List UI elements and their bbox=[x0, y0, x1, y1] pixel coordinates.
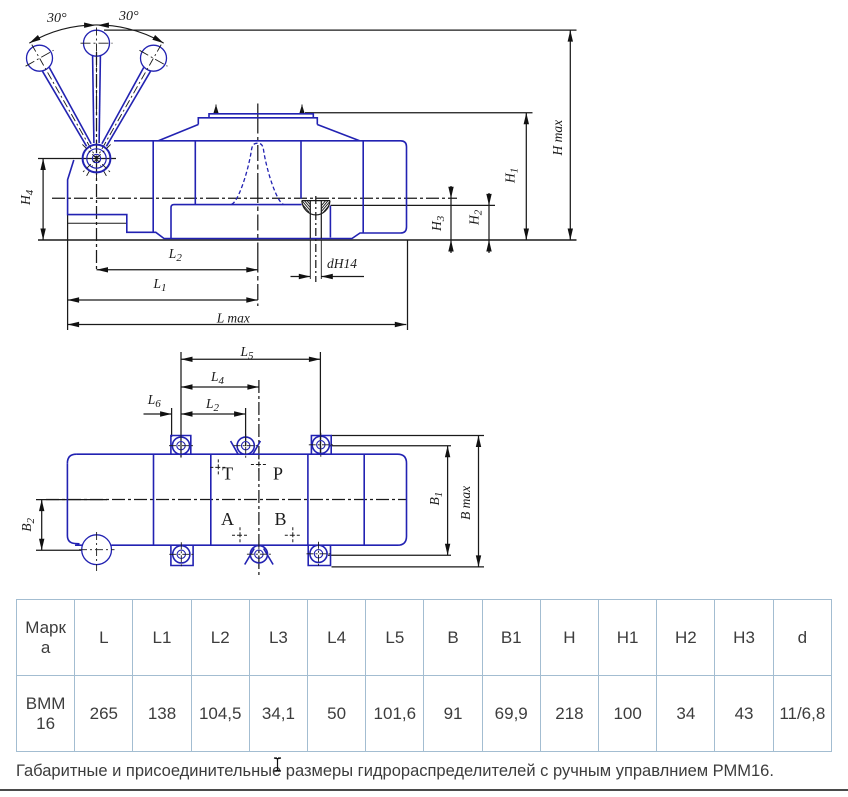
svg-text:H2: H2 bbox=[467, 209, 485, 226]
svg-text:L6: L6 bbox=[147, 392, 162, 410]
svg-text:30°: 30° bbox=[118, 9, 139, 24]
svg-text:dH14: dH14 bbox=[327, 256, 357, 271]
svg-text:L4: L4 bbox=[210, 369, 225, 387]
svg-text:L1: L1 bbox=[153, 276, 167, 294]
svg-text:B max: B max bbox=[458, 486, 473, 520]
svg-text:P: P bbox=[273, 464, 283, 484]
svg-text:L2: L2 bbox=[168, 246, 183, 264]
svg-text:H max: H max bbox=[550, 120, 565, 157]
svg-text:H1: H1 bbox=[503, 168, 521, 184]
svg-text:30°: 30° bbox=[46, 11, 67, 26]
svg-text:A: A bbox=[221, 509, 234, 529]
svg-text:L2: L2 bbox=[205, 396, 220, 414]
svg-text:H3: H3 bbox=[429, 215, 447, 232]
svg-text:T: T bbox=[222, 464, 233, 484]
svg-text:L max: L max bbox=[216, 311, 250, 326]
svg-text:B2: B2 bbox=[19, 518, 37, 532]
svg-text:B: B bbox=[275, 509, 287, 529]
svg-text:H4: H4 bbox=[18, 189, 36, 206]
svg-text:B1: B1 bbox=[427, 492, 445, 506]
